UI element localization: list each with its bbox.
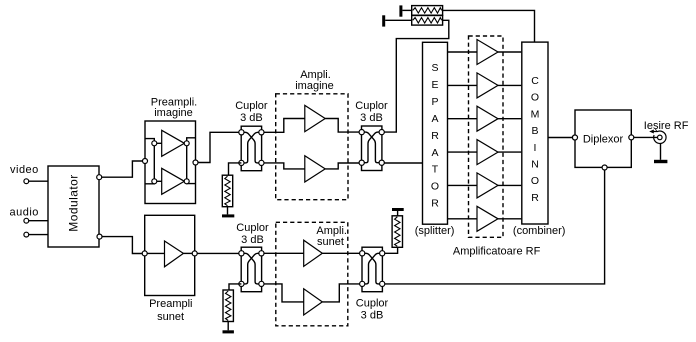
preamp imagine amp A2 output node (184, 179, 189, 184)
RF amplifier 6 (448, 206, 522, 231)
wire C3 isolated port to resistor R4 (229, 284, 241, 290)
node modulator video out (97, 175, 102, 180)
block SEPARATOR (423, 42, 448, 224)
wire C4 isolated port up to resistor R5 (385, 247, 398, 254)
coupler C4 (360, 247, 385, 292)
RF output connector (658, 135, 663, 140)
wire preamp sunet input (147, 252, 164, 254)
svg-text:E: E (431, 79, 438, 91)
svg-text:P: P (431, 96, 438, 108)
svg-text:imagine: imagine (295, 80, 334, 92)
svg-text:O: O (531, 175, 539, 187)
wire C2 output to separator (384, 162, 422, 164)
amplifier A2 triangle (162, 168, 185, 194)
block Preampli sunet (145, 215, 195, 295)
wire C1 coupled port to ampli imagine A4 (264, 163, 305, 169)
ground connector (654, 160, 667, 163)
RF amplifier 3 (448, 106, 522, 131)
wire diplexor to RF connector (634, 136, 658, 138)
svg-text:Cuplor: Cuplor (355, 100, 388, 112)
svg-text:B: B (531, 125, 538, 137)
block Diplexor (575, 110, 631, 167)
amplifier A4 triangle (305, 156, 325, 182)
resistor R5 (392, 216, 402, 248)
svg-text:3 dB: 3 dB (241, 234, 264, 246)
svg-text:imagine: imagine (154, 107, 193, 119)
wire preamp sunet to coupler C3 (197, 252, 239, 254)
node preamp imagine output (193, 160, 198, 165)
resistor R4 (223, 290, 233, 322)
svg-text:T: T (432, 164, 439, 176)
svg-text:Ieşire RF: Ieşire RF (644, 120, 689, 132)
preamp imagine output bus (187, 138, 196, 184)
svg-text:video: video (10, 164, 39, 176)
svg-text:sunet: sunet (317, 236, 344, 248)
svg-text:R: R (431, 198, 439, 210)
svg-text:M: M (531, 108, 540, 120)
wire C1 isolated port to resistor R3 (229, 163, 242, 175)
RF amplifier 5 (448, 173, 522, 198)
block Preampli imagine (145, 121, 196, 204)
node diplexor output (629, 135, 634, 140)
svg-text:Cuplor: Cuplor (236, 222, 269, 234)
wire preamp sunet output (183, 252, 192, 254)
dashed box Ampli imagine (276, 94, 348, 200)
wire to amp A2 (157, 180, 162, 182)
RF amplifier 1 (448, 40, 522, 65)
ground G3 (222, 214, 234, 217)
wire modulator audio out to preamp sunet (99, 237, 145, 254)
RF amplifier 4 (448, 140, 522, 165)
svg-text:Modulator: Modulator (67, 174, 81, 231)
svg-text:I: I (534, 142, 537, 154)
node modulator audio out (97, 234, 102, 239)
block COMBINOR (522, 42, 548, 224)
svg-text:O: O (431, 181, 439, 193)
node preamp sunet input (142, 251, 147, 256)
ground G2 (382, 15, 385, 26)
amplifier A1 triangle (162, 130, 185, 156)
input terminal audio (24, 218, 29, 223)
wire R3 to ground (227, 207, 229, 215)
wire R1 to combiner top (443, 10, 535, 42)
svg-text:Amplificatoare RF: Amplificatoare RF (453, 246, 541, 258)
node preamp imagine input (143, 159, 148, 164)
dashed box Ampli sunet (276, 222, 348, 325)
svg-text:Cuplor: Cuplor (356, 298, 389, 310)
resistor R1 horizontal (412, 6, 443, 16)
wire C1 direct port to ampli imagine A3 (264, 119, 305, 133)
input terminal aux (24, 232, 29, 237)
svg-text:Cuplor: Cuplor (235, 100, 268, 112)
svg-text:(combiner): (combiner) (513, 225, 566, 237)
svg-text:Diplexor: Diplexor (583, 134, 624, 146)
wire A7 out to coupler C4 (322, 284, 359, 302)
wire connector to ground (660, 144, 662, 160)
coupler C3 (239, 247, 264, 292)
svg-text:Preampli: Preampli (149, 298, 192, 310)
svg-text:sunet: sunet (157, 311, 184, 323)
wire R5 to ground G5 (397, 211, 399, 216)
coupler C2 (359, 126, 384, 171)
ground G1 (399, 5, 402, 16)
amplifier A5 triangle (165, 241, 184, 267)
wire A6 out to coupler C4 (322, 252, 359, 254)
wire A3 out to coupler C2 (325, 119, 359, 133)
wire preamp imagine out to coupler C1 (198, 132, 239, 162)
preamp imagine amp A1 input node (152, 141, 157, 146)
wire C2 isolated port up to resistor R2 (384, 20, 449, 132)
wire C3 to ampli sunet A6 (264, 252, 304, 254)
dashed box Amplificatoare RF (469, 36, 504, 237)
preamp imagine input bus (145, 139, 154, 184)
wire to amp A1 (157, 142, 162, 144)
svg-text:O: O (531, 92, 539, 104)
wire aux to modulator (29, 234, 48, 236)
ground G5 (392, 208, 404, 211)
node diplexor sound input (602, 165, 607, 170)
wire video to modulator (29, 180, 48, 182)
wire diplexor sound input down and to coupler C4 (385, 170, 605, 284)
svg-text:audio: audio (10, 207, 39, 219)
RF amplifier 2 (448, 73, 522, 98)
svg-text:3 dB: 3 dB (240, 112, 263, 124)
ground G4 (223, 330, 234, 333)
amplifier A6 triangle (304, 240, 323, 266)
wire A4 out to coupler C2 (325, 163, 359, 169)
wire modulator video out to preamp imagine (99, 161, 145, 177)
node preamp sunet output (192, 251, 197, 256)
amplifier A3 triangle (305, 105, 325, 131)
svg-text:N: N (531, 159, 539, 171)
svg-text:A: A (431, 113, 438, 125)
wire R2 to ground G2 (385, 19, 412, 21)
resistor R3 (222, 175, 232, 207)
svg-text:3 dB: 3 dB (360, 112, 383, 124)
node diplexor input (572, 135, 577, 140)
svg-text:R: R (431, 130, 439, 142)
block Modulator (48, 166, 99, 247)
preamp imagine amp A1 output node (184, 141, 189, 146)
svg-text:A: A (431, 147, 438, 159)
coupler C1 (239, 126, 264, 171)
amplifier A7 triangle (304, 289, 323, 315)
svg-text:R: R (531, 192, 539, 204)
wire R4 to ground (227, 322, 229, 331)
svg-text:(splitter): (splitter) (415, 225, 455, 237)
resistor R2 horizontal (412, 15, 443, 25)
svg-text:3 dB: 3 dB (361, 310, 384, 322)
wire C3 coupled to ampli sunet A7 (264, 284, 304, 302)
wire combiner to diplexor (548, 137, 572, 139)
node diplexor input (on edge) (573, 135, 578, 140)
input terminal video (24, 179, 29, 184)
svg-text:C: C (531, 75, 539, 87)
svg-text:S: S (431, 62, 438, 74)
wire R1 to ground G1 (402, 9, 411, 11)
wire audio to modulator (29, 220, 48, 222)
preamp imagine amp A2 input node (152, 179, 157, 184)
